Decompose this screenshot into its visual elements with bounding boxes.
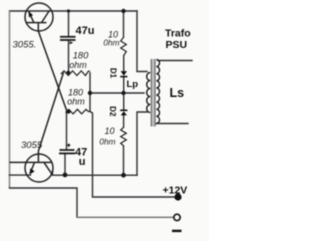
svg-text:D1: D1: [109, 68, 118, 79]
svg-text:47u: 47u: [76, 25, 95, 37]
svg-text:Trafo: Trafo: [165, 28, 191, 40]
svg-text:+12V: +12V: [163, 185, 188, 197]
svg-text:PSU: PSU: [166, 39, 188, 51]
svg-text:ohm: ohm: [67, 97, 85, 107]
svg-text:10: 10: [104, 126, 114, 136]
svg-text:D2: D2: [108, 106, 117, 117]
svg-text:3055.: 3055.: [13, 39, 37, 50]
svg-text:Lp: Lp: [127, 79, 139, 90]
svg-text:0hm: 0hm: [103, 38, 119, 48]
svg-text:Ls: Ls: [170, 86, 185, 100]
svg-text:u: u: [79, 156, 86, 168]
svg-text:0hm: 0hm: [99, 136, 115, 146]
svg-text:ohm: ohm: [69, 60, 87, 70]
svg-text:3055: 3055: [21, 140, 43, 151]
